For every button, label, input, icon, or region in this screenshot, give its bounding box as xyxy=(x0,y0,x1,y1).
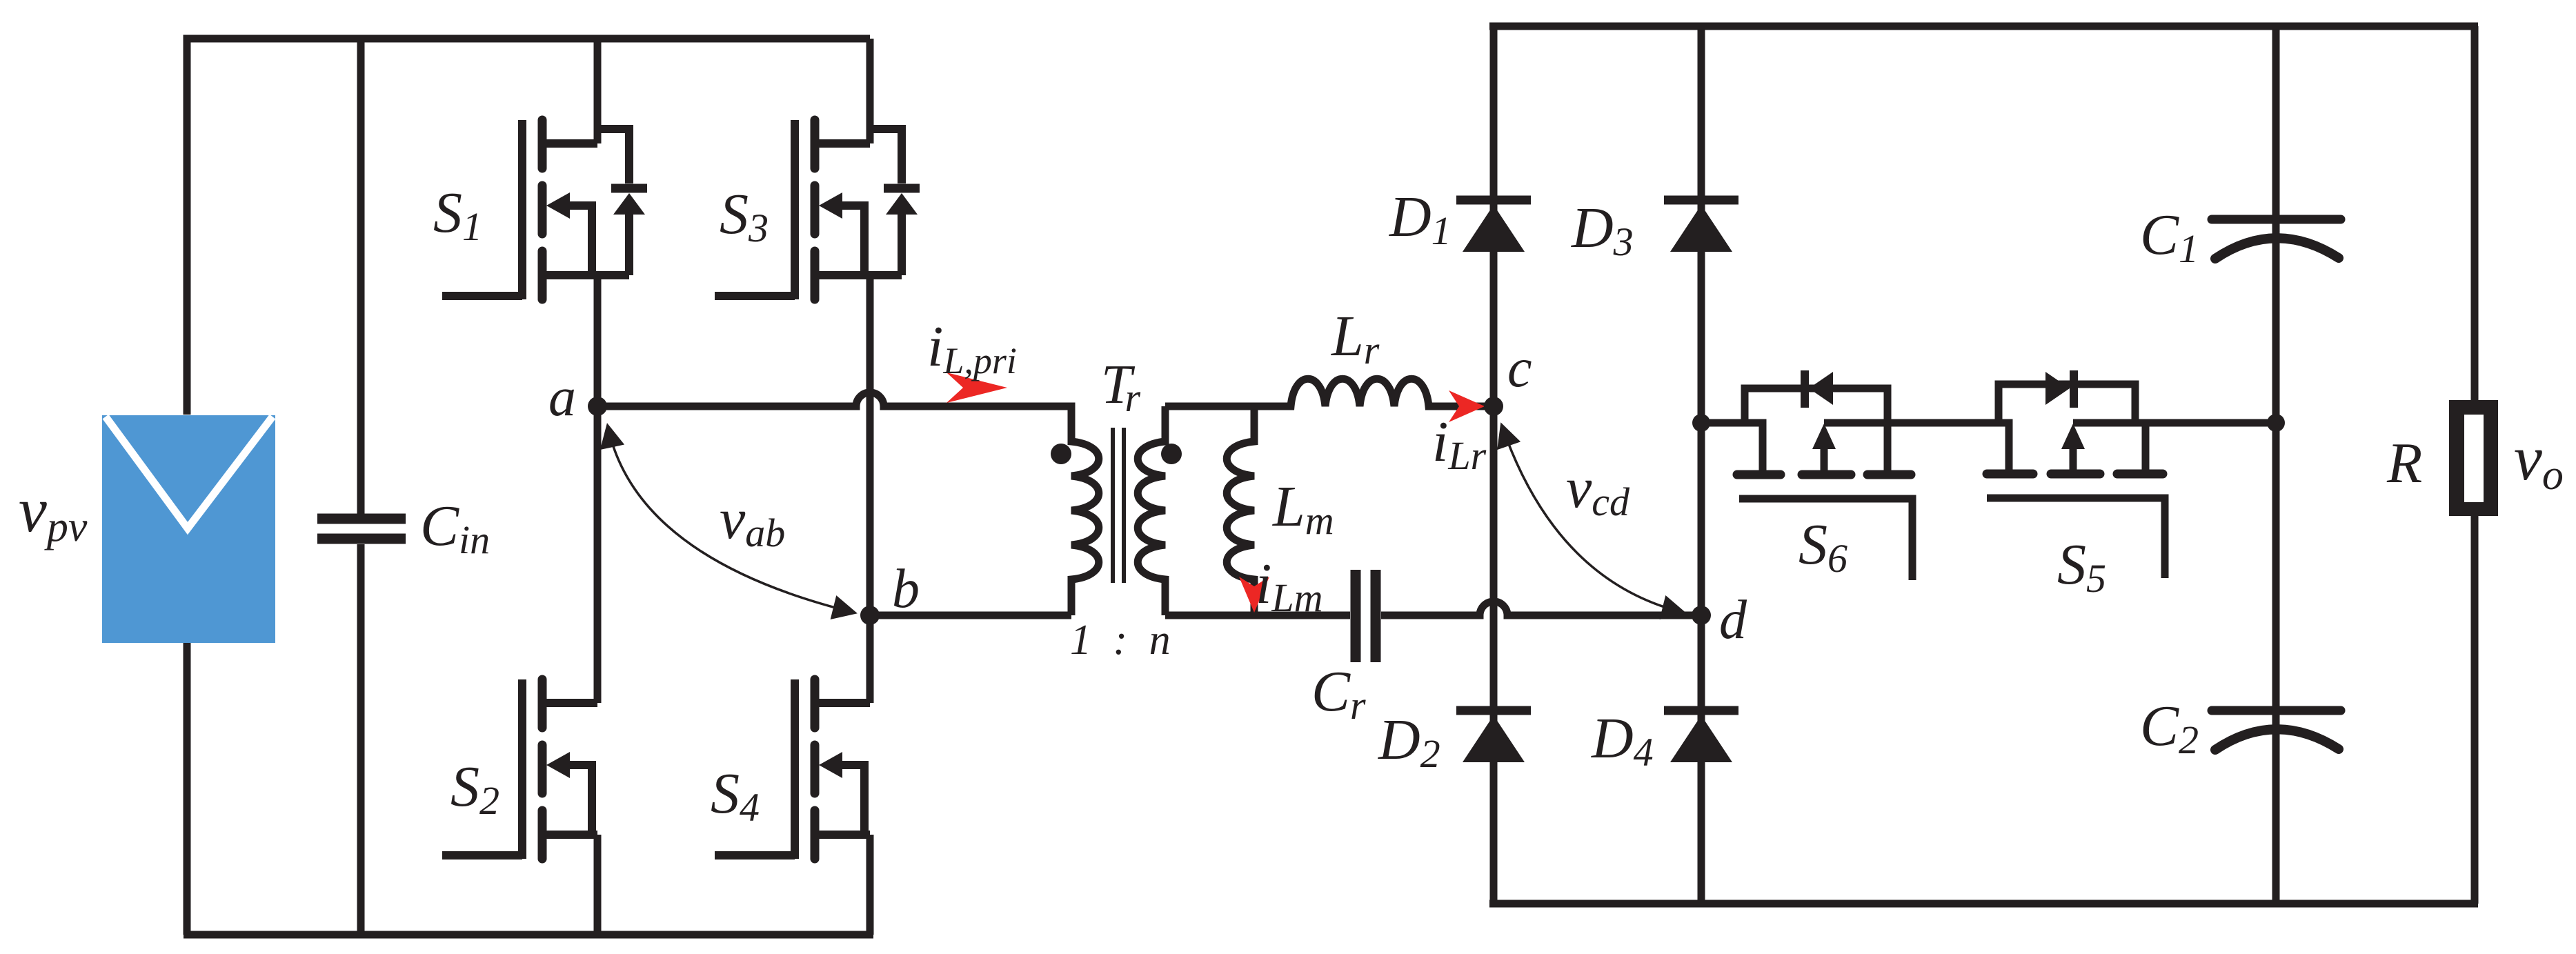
svg-text:b: b xyxy=(892,559,920,619)
svg-text:a: a xyxy=(548,367,576,428)
svg-text:c: c xyxy=(1507,338,1532,399)
svg-text:d: d xyxy=(1719,590,1747,650)
svg-text:1 : n: 1 : n xyxy=(1070,617,1176,664)
svg-text:R: R xyxy=(2386,431,2422,495)
